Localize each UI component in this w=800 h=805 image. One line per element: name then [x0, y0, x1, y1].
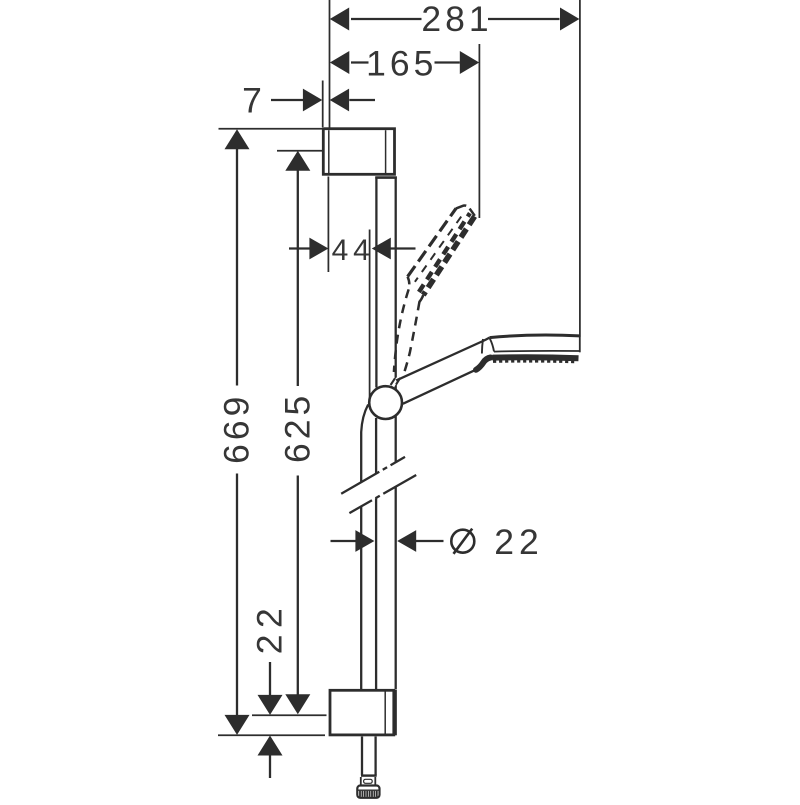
svg-text:165: 165: [366, 44, 437, 84]
svg-text:4: 4: [332, 234, 349, 267]
svg-text:7: 7: [242, 81, 262, 121]
svg-text:4: 4: [353, 234, 370, 267]
svg-text:22: 22: [494, 522, 544, 562]
svg-text:625: 625: [278, 392, 318, 463]
svg-text:669: 669: [217, 393, 257, 464]
svg-text:281: 281: [421, 0, 492, 39]
svg-text:22: 22: [250, 602, 290, 655]
